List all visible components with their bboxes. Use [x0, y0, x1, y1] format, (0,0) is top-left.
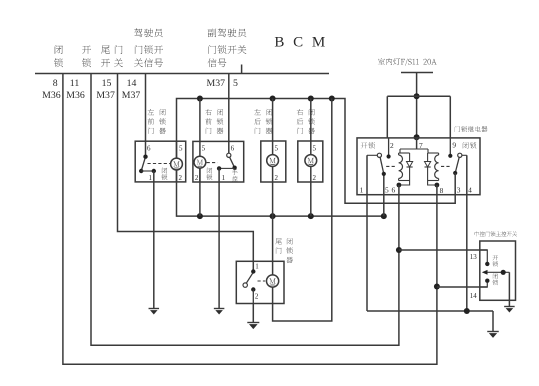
svg-text:M37: M37: [122, 90, 141, 101]
master switch lever with arrow: [487, 271, 510, 273]
svg-text:1: 1: [360, 185, 364, 194]
relay pin3 wire from lock arm pivot: [454, 173, 456, 195]
right front door actuator box: [193, 141, 244, 182]
box1 switch ground wire: [153, 171, 155, 309]
junction bottom bus left rear motor and tailgate: [270, 213, 276, 219]
relay pin 6 wire: [398, 185, 400, 250]
ground relay NC contacts: [487, 332, 499, 338]
svg-text:11: 11: [70, 78, 80, 89]
header label 闭锁 (lock): [54, 45, 63, 67]
box1 mechanical link: [148, 163, 171, 165]
svg-text:1: 1: [255, 263, 259, 271]
junction bottom bus to right front motor: [197, 213, 203, 219]
relay coil feed rail: [400, 148, 428, 150]
header label 信号 row: [208, 58, 227, 67]
box2 door switch: [227, 153, 231, 157]
label 左前门 column: [148, 109, 154, 134]
svg-text:3: 3: [457, 185, 461, 194]
tailgate switch ground wire: [252, 304, 254, 323]
svg-text:15: 15: [102, 78, 112, 89]
svg-text:1: 1: [149, 174, 153, 182]
junction fuse split: [414, 93, 420, 99]
relay lock contact from pin 9: [449, 138, 451, 154]
wire top bus to tailgate motor bottom: [273, 99, 332, 322]
ground left front door switch: [149, 309, 160, 315]
relay pin 7 internal wire: [416, 137, 418, 149]
header label 尾门 row: [101, 45, 122, 54]
label 闭锁器 column4: [308, 109, 315, 134]
svg-text:6: 6: [231, 145, 235, 153]
wire W5 passenger door lock switch signal pin5 M37: [228, 74, 230, 154]
box1 door switch: [143, 155, 147, 159]
svg-text:5: 5: [312, 145, 316, 153]
wire bottom bus to left rear motor: [272, 166, 274, 216]
label 右前门 column: [205, 109, 211, 134]
switch pin13 internal wire: [480, 250, 488, 262]
wire bottom bus down to tailgate motor top: [272, 216, 274, 275]
relay right mechanical link: [441, 165, 451, 167]
relay unlock coil exit to pin 6: [399, 181, 410, 186]
junction relay pin 8: [435, 183, 440, 188]
relay unlock contact from pin 2: [388, 138, 390, 155]
motor right rear door M4: [305, 155, 317, 167]
ground tailgate switch: [247, 323, 259, 330]
relay left coil top stub: [399, 149, 401, 153]
junction pin4 wire on ground line: [464, 308, 470, 314]
left front door actuator box: [135, 141, 186, 182]
svg-text:14: 14: [470, 292, 478, 300]
relay lock switch arm: [458, 153, 462, 157]
junction switch common: [501, 270, 506, 275]
motor left front door M1: [171, 158, 183, 170]
relay lock coil K2 with diode: [428, 152, 439, 154]
central lock master switch box: [480, 241, 516, 300]
fuse label 室内灯F/S11 20A: [378, 58, 437, 66]
door lock relay box: [357, 138, 480, 195]
master switch ground wire: [508, 272, 510, 306]
wire top bus to left rear motor: [272, 99, 274, 155]
relay pin4 link: [462, 154, 467, 156]
svg-text:9: 9: [452, 141, 456, 150]
svg-text:1: 1: [222, 174, 226, 182]
svg-text:8: 8: [440, 186, 444, 195]
wire bottom bus up to relay pin 5: [383, 174, 385, 216]
relay pin4 wire to NC ground: [466, 155, 468, 311]
box2 switch ground wire: [218, 168, 220, 308]
relay label 门锁继电器: [455, 126, 488, 132]
relay pin 8 wire: [436, 185, 438, 287]
relay unlock coil K1 with diode: [399, 152, 410, 154]
junction lock coil line to switch pin14 and W1: [434, 284, 440, 290]
lock feed top bus: [177, 99, 456, 204]
relay label 闭锁: [463, 142, 477, 148]
header label 副驾驶员 row: [208, 28, 247, 37]
wire relay pin6 to master switch pin 13: [399, 249, 487, 251]
svg-text:2: 2: [179, 174, 183, 182]
header label 关信号 row: [134, 58, 163, 67]
label 闭锁器 column2: [217, 109, 224, 134]
relay NC ground line: [367, 310, 493, 312]
junction top bus to left rear motor: [270, 96, 276, 102]
label 闭锁器 column: [159, 109, 166, 134]
wire W2 unlock signal pin11 M36: [91, 74, 399, 346]
header label 门锁开关 row: [208, 45, 246, 54]
wire relay pin8 to master switch pin 14: [437, 286, 487, 288]
svg-text:14: 14: [127, 78, 137, 89]
svg-text:2: 2: [255, 293, 259, 301]
wire top bus to right front motor: [199, 99, 201, 157]
fuse bar: [401, 72, 433, 74]
ground right front door switch: [214, 309, 225, 315]
fuse feed wire: [416, 73, 418, 138]
switch label 闭锁: [492, 273, 498, 285]
box2 label 闭锁: [206, 168, 212, 181]
svg-text:5: 5: [233, 78, 238, 89]
relay label 开锁: [361, 142, 375, 148]
box2 label 手控: [232, 170, 238, 182]
fuse branch bar: [387, 95, 450, 97]
svg-text:B C M: B C M: [274, 34, 327, 50]
svg-text:6: 6: [391, 185, 395, 194]
tailgate mechanical link: [258, 280, 266, 282]
relay lock coil exit to pin 8: [428, 181, 437, 186]
svg-text:5: 5: [274, 145, 278, 153]
box1 motor bottom stub: [176, 170, 178, 182]
motor left rear door M3: [267, 155, 279, 167]
junction top bus to right rear motor: [308, 96, 314, 102]
svg-text:5: 5: [202, 145, 206, 153]
header label 门锁开 row: [135, 45, 163, 54]
svg-text:4: 4: [468, 185, 472, 194]
label 右后门 column: [297, 109, 303, 134]
junction bottom bus to relay pin 5: [381, 213, 387, 219]
master switch lock contact: [485, 279, 489, 283]
wire W3 tailgate switch signal pin15 M37: [118, 74, 254, 272]
svg-text:5: 5: [385, 185, 389, 194]
svg-text:8: 8: [53, 78, 58, 89]
junction top bus to right front motor: [197, 96, 203, 102]
label 左后门 column: [254, 109, 260, 134]
wire W1 lock signal pin8 M36: [63, 74, 437, 365]
box1 label 闭锁: [161, 168, 167, 181]
unlock feed bottom bus: [177, 170, 384, 216]
svg-text:2: 2: [312, 174, 316, 182]
ground master switch: [504, 307, 515, 313]
header label 驾驶员 row: [134, 28, 163, 37]
junction unlock coil line to switch pin13: [396, 247, 402, 253]
junction top bus to tailgate motor: [329, 96, 335, 102]
wire bottom bus to right front motor: [199, 168, 201, 216]
relay unlock switch arm: [377, 153, 381, 157]
box2 motor bottom stub: [199, 168, 201, 182]
junction relay pin 7 entry: [414, 134, 420, 140]
box2 mechanical link: [207, 162, 218, 164]
relay right coil top stub: [427, 149, 429, 153]
wire fuse to relay pin 9: [449, 96, 451, 138]
svg-text:M36: M36: [42, 90, 61, 101]
box1 motor top stub: [176, 141, 178, 158]
relay pin1 link: [367, 154, 377, 156]
junction relay pin 6: [397, 183, 402, 188]
right rear door actuator box: [298, 141, 323, 182]
switch label 开锁: [492, 255, 498, 266]
svg-text:M37: M37: [96, 90, 115, 101]
svg-text:M37: M37: [207, 78, 226, 89]
relay left mechanical link: [386, 165, 396, 167]
master switch unlock contact: [485, 262, 489, 266]
tailgate lock actuator box: [236, 261, 284, 303]
relay pin1 wire to NC ground: [366, 155, 368, 311]
svg-text:6: 6: [147, 145, 151, 153]
tailgate switch: [251, 269, 255, 273]
svg-text:5: 5: [179, 145, 183, 153]
motor right front door M2: [194, 156, 206, 168]
label 闭锁器 column3: [266, 109, 273, 134]
svg-text:M36: M36: [66, 90, 85, 101]
left rear door actuator box: [261, 141, 286, 182]
header label 开锁 (unlock): [82, 46, 91, 68]
ground line drop: [492, 311, 494, 332]
master switch label 中控门锁主控开关: [475, 231, 517, 236]
svg-text:2: 2: [390, 141, 394, 150]
wire bottom bus to right rear motor: [310, 166, 312, 216]
switch pin14 internal wire: [480, 283, 488, 288]
wire W4 driver door lock switch signal pin14 M37: [145, 74, 147, 157]
wire top bus to right rear motor: [310, 99, 312, 155]
header label 开关 row: [101, 58, 123, 67]
junction bottom bus to right rear motor: [308, 213, 314, 219]
svg-text:2: 2: [274, 174, 278, 182]
motor tailgate M5: [267, 275, 279, 287]
svg-text:13: 13: [470, 253, 478, 261]
connector cell tick: [241, 65, 243, 74]
BCM connector baseline: [35, 73, 329, 75]
label 尾门 column: [275, 238, 281, 254]
svg-text:2: 2: [195, 174, 199, 182]
label 闭锁器 column5: [286, 238, 293, 263]
wire fuse to relay pin 2: [386, 96, 388, 138]
